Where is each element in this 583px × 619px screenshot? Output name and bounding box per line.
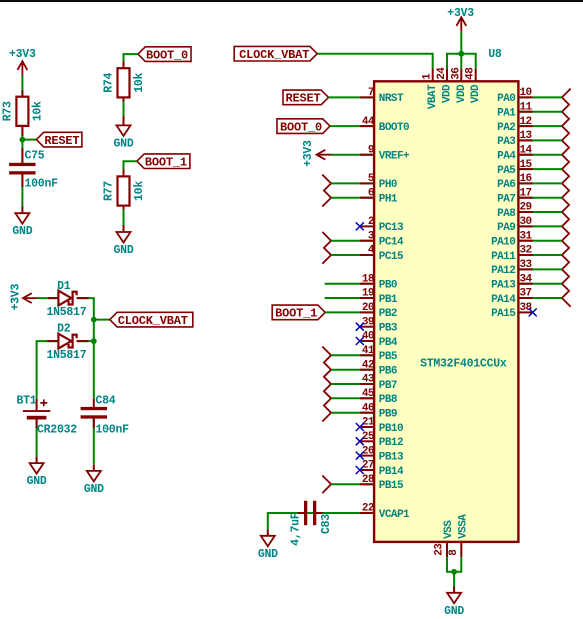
svg-text:PA5: PA5 [497,165,516,177]
svg-text:PB13: PB13 [379,451,404,463]
R74 value 10k [133,72,146,92]
hier tips PA0-PA14 [562,89,571,307]
no-connect X on PA15 [529,308,537,316]
hier tip PB15 [322,476,331,494]
resistor R73 [16,97,28,126]
wire PA0 [518,96,562,98]
wire PA12 [518,268,562,270]
svg-text:CLOCK_VBAT: CLOCK_VBAT [118,314,188,328]
resistor R74 [118,68,130,97]
R73 value 10k [31,101,44,121]
svg-text:VSS: VSS [443,520,455,539]
wire PA4 [518,154,562,156]
R77 value 10k [133,181,146,201]
svg-text:4,7uF: 4,7uF [290,512,303,546]
svg-text:10k: 10k [133,181,146,201]
wire junction to RESET label [22,139,36,141]
svg-text:CR2032: CR2032 [37,423,77,436]
capacitor C83 [304,501,316,525]
wire D2 cathode to node [77,340,94,342]
no-connect X on PB4 [356,337,364,345]
svg-text:NRST: NRST [379,93,404,105]
wire BOOT_1 to PB2 [325,311,374,313]
U8 bottom pin 8 VSSA [448,514,470,557]
U8 right pin 15 PA5 [497,159,532,177]
junction node CLOCK_VBAT [91,317,97,323]
svg-text:PA11: PA11 [491,251,516,263]
svg-text:PC13: PC13 [379,222,404,234]
svg-text:PA12: PA12 [491,265,515,277]
svg-text:PH1: PH1 [379,194,398,206]
junction node VDD [458,51,464,57]
D2 value 1N5817 [46,349,86,362]
R77 reference [103,181,116,201]
U8 left pin 25 PB12 [360,431,403,449]
svg-text:RESET: RESET [44,134,79,148]
svg-text:VCAP1: VCAP1 [379,509,410,521]
U8 left pin 26 PB13 [360,445,404,463]
svg-text:PB0: PB0 [379,280,397,292]
svg-text:D2: D2 [57,323,71,336]
U8 right pin 33 PA12 [491,259,532,277]
wire BOOT_1 to R77 [124,161,137,176]
svg-text:48: 48 [465,67,477,80]
wire PA1 [518,111,562,113]
svg-text:BOOT_1: BOOT_1 [145,155,187,169]
svg-text:VSSA: VSSA [457,514,469,539]
svg-text:GND: GND [27,475,47,488]
wire PC14 [331,240,374,242]
power +3V3 (VDD rail) [447,7,474,32]
U8 left pin 27 PB14 [360,460,404,478]
svg-text:36: 36 [450,68,462,80]
wire BOOT_0 to BOOT0 [330,125,374,127]
global label RESET (at U8) [283,90,329,106]
U8 right pin 34 PA13 [491,273,532,291]
svg-text:PA9: PA9 [497,222,515,234]
junction node D2 cathode [91,338,97,344]
svg-text:10k: 10k [31,101,44,121]
svg-text:PA0: PA0 [497,93,515,105]
wire PB5 [331,354,374,356]
U8 left pin 21 PB10 [360,417,403,435]
svg-text:PB4: PB4 [379,337,398,349]
svg-text:STM32F401CCUx: STM32F401CCUx [420,357,507,370]
svg-text:PB7: PB7 [379,380,397,392]
U8 right pin 38 PA15 [491,302,533,320]
no-connect X on PB3 [356,323,364,331]
resistor R77 [118,176,130,205]
U8 top pin 48 VDD [465,67,483,103]
svg-text:PA3: PA3 [497,136,516,148]
wire R77 to GND [123,206,125,232]
wire PA5 [518,168,562,170]
svg-text:U8: U8 [488,48,502,61]
C84 value 100nF [96,423,130,436]
wire BT1 to GND [36,420,38,464]
svg-text:PB5: PB5 [379,351,398,363]
R73 reference [2,101,15,121]
U8 right pin 31 PA10 [491,230,532,248]
svg-text:+3V3: +3V3 [9,48,36,61]
wire PH1 [331,197,374,199]
U8 right pin 12 PA2 [497,116,531,134]
U8 right pin 13 PA3 [497,130,532,148]
svg-text:GND: GND [444,605,464,618]
U8 left pin 7 NRST [368,87,404,105]
D1 value 1N5817 [46,306,86,319]
svg-text:1N5817: 1N5817 [46,306,86,319]
svg-text:BOOT_0: BOOT_0 [146,48,188,62]
global label BOOT_0 (at U8) [277,119,330,135]
svg-text:PA1: PA1 [497,108,516,120]
U8 right pin 16 PA6 [497,173,531,191]
wire PB7 [331,383,374,385]
power +3V3 (VREF+) [302,140,331,167]
svg-text:PB9: PB9 [379,409,397,421]
svg-text:VDD: VDD [470,84,482,103]
svg-text:+3V3: +3V3 [302,140,315,167]
wire PB0 stub [325,283,374,285]
svg-text:D1: D1 [57,280,71,293]
junction node RESET [20,137,26,143]
global label RESET (left) [36,132,82,148]
svg-text:1N5817: 1N5817 [46,349,86,362]
svg-text:PB6: PB6 [379,366,397,378]
no-connect X on PB10 [356,423,364,431]
BT1 reference [17,394,37,407]
ground GND (C84) [84,471,104,496]
wire PA14 [518,297,562,299]
global label BOOT_1 (at U8) [272,305,325,321]
svg-text:100nF: 100nF [25,177,59,190]
svg-text:GND: GND [12,225,32,238]
wire +3V3 to VREF+ [331,154,374,156]
capacitor C75 [9,163,35,175]
U8 reference [488,48,502,61]
wire R74 to GND [123,97,125,125]
U8 left pin 4 PC15 [368,245,404,263]
no-connect X on PB13 [356,452,364,460]
ground GND (R74) [114,125,134,150]
diode D2 1N5817 [58,334,76,349]
hier tips PB5-PB9 [322,347,331,422]
U8 left pin 46 PB9 [362,402,397,420]
global label CLOCK_VBAT (left area) [110,312,193,328]
U8 right pin 17 PA7 [497,187,531,205]
wire PB8 [331,397,374,399]
global label BOOT_0 (left area) [138,47,191,63]
diode D1 1N5817 [58,291,76,306]
svg-text:VBAT: VBAT [427,84,439,109]
wire C84 to GND [93,419,95,471]
svg-text:BOOT0: BOOT0 [379,122,409,134]
wire PB9 [331,412,374,414]
U8 left pin 44 BOOT0 [362,116,409,134]
no-connect X on PB12 [356,437,364,445]
C83 value 4,7uF [290,512,303,546]
svg-text:1: 1 [422,73,434,80]
svg-text:VDD: VDD [456,84,468,103]
wire PB15 [331,483,374,485]
U8 left pin 22 VCAP1 [362,503,410,521]
svg-text:GND: GND [258,548,278,561]
global label BOOT_1 (left area) [137,154,190,170]
wire VCAP1 to C83 and GND [268,513,374,536]
U8 value STM32F401CCUx [420,357,507,370]
wire VSS VSSA to GND [447,557,461,593]
wire R73 to C75 [21,126,23,163]
wire PA2 [518,125,562,127]
wire BOOT_0 to R74 [124,54,139,68]
wire D2 anode to BT1 [37,341,59,410]
svg-text:PA13: PA13 [491,280,516,292]
global label CLOCK_VBAT (at U8) [234,46,317,62]
wire PA13 [518,283,562,285]
svg-text:+3V3: +3V3 [9,284,22,311]
svg-text:CLOCK_VBAT: CLOCK_VBAT [239,48,309,62]
U8 left pin 45 PB8 [362,388,398,406]
sheet border top edge [0,0,583,2]
svg-text:24: 24 [436,67,448,80]
U8 left pin 2 PC13 [360,216,404,234]
svg-text:PB14: PB14 [379,466,404,478]
svg-text:C83: C83 [320,514,333,534]
svg-text:GND: GND [114,244,134,257]
wire PB1 stub [325,297,374,299]
svg-text:R74: R74 [103,72,116,92]
C83 reference [320,514,333,534]
svg-text:23: 23 [434,543,446,556]
junction node VSS [451,569,457,575]
no-connect X on PB14 [356,466,364,474]
U8 right pin 29 PA8 [497,202,531,220]
U8 right pin 14 PA4 [497,144,532,162]
svg-text:PB10: PB10 [379,423,403,435]
wire C75 to GND [21,175,23,214]
wire PB6 [331,369,374,371]
U8 top pin 24 VDD [436,67,454,103]
svg-text:C84: C84 [96,394,116,407]
U8 left pin 20 PB2 [362,302,397,320]
svg-text:PB15: PB15 [379,480,404,492]
wire RESET to NRST [329,96,375,98]
svg-text:PA6: PA6 [497,179,515,191]
wire PA8 [518,211,562,213]
svg-text:PB8: PB8 [379,394,398,406]
hier tips PC14 PC15 [322,232,331,264]
wire PA3 [518,139,562,141]
U8 left pin 43 PB7 [362,374,397,392]
U8 left pin 40 PB4 [360,331,398,349]
svg-text:PA8: PA8 [497,208,516,220]
BT1 value CR2032 [37,423,77,436]
U8 left pin 19 PB1 [362,288,398,306]
battery BT1 CR2032 [23,399,50,419]
wire PA9 [518,225,562,227]
wire +3V3 to R73 [21,76,23,97]
U8 right pin 37 PA14 [491,288,531,306]
wire PA10 [518,240,562,242]
capacitor C84 [81,407,107,419]
ground GND (C75) [12,213,32,238]
U8 right pin 32 PA11 [491,245,531,263]
R74 reference [103,72,116,92]
svg-text:GND: GND [84,483,104,496]
wire D1 cathode down to C84 [77,298,94,407]
U8 left pin 5 PH0 [368,173,397,191]
svg-text:PA7: PA7 [497,194,515,206]
svg-text:VREF+: VREF+ [379,151,410,163]
wire PH0 [331,182,374,184]
U8 left pin 41 PB5 [362,345,398,363]
svg-text:R73: R73 [2,101,15,121]
svg-text:PC14: PC14 [379,237,404,249]
svg-text:PA2: PA2 [497,122,515,134]
C84 reference [96,394,116,407]
svg-text:+3V3: +3V3 [447,7,474,20]
svg-text:PA14: PA14 [491,294,516,306]
svg-text:R77: R77 [103,181,116,201]
U8 left pin 9 VREF+ [368,144,410,162]
ground GND (R77) [114,232,134,257]
D2 reference [57,323,71,336]
D1 reference [57,280,71,293]
wire CLOCK_VBAT to VBAT pin [317,54,433,69]
svg-text:BT1: BT1 [17,394,37,407]
svg-text:BOOT_1: BOOT_1 [275,307,317,321]
hier tips PH0 PH1 [322,175,331,207]
ground GND (BT1) [27,463,47,488]
C75 value 100nF [25,177,59,190]
svg-text:PH0: PH0 [379,179,397,191]
wire PA11 [518,254,562,256]
ground GND (U8) [444,593,464,618]
U8 top pin 1 VBAT [422,69,440,109]
wire PC15 [331,254,374,256]
svg-text:PB1: PB1 [379,294,398,306]
wire PA6 [518,182,562,184]
wire +3V3 to D1 [37,297,58,299]
svg-text:C75: C75 [25,150,45,163]
svg-text:8: 8 [448,549,460,556]
wire +3V3 to VDD pins [460,32,462,54]
svg-text:RESET: RESET [285,92,320,106]
power +3V3 (R73 pull-up) [9,48,36,75]
U8 right pin 11 PA1 [497,101,532,119]
svg-text:PB3: PB3 [379,323,398,335]
wire PA7 [518,197,562,199]
svg-text:PA15: PA15 [491,308,516,320]
power +3V3 (D1 anode) [9,284,37,311]
svg-text:10k: 10k [133,72,146,92]
svg-text:VDD: VDD [442,84,454,103]
svg-text:PA4: PA4 [497,151,516,163]
svg-text:BOOT_0: BOOT_0 [280,120,322,134]
U8 right pin 10 PA0 [497,87,531,105]
IC U8 STM32F401CCUx body [374,81,518,542]
svg-text:PB12: PB12 [379,437,403,449]
U8 left pin 28 PB15 [362,474,404,492]
C75 reference [25,150,45,163]
svg-text:100nF: 100nF [96,423,130,436]
U8 left pin 39 PB3 [360,316,398,334]
wire VDD bus [447,54,476,69]
U8 left pin 3 PC14 [368,230,404,248]
no-connect X on PC13 [356,222,364,230]
U8 left pin 6 PH1 [368,187,398,205]
svg-text:PA10: PA10 [491,237,515,249]
U8 right pin 30 PA9 [497,216,531,234]
U8 bottom pin 23 VSS [434,520,456,557]
U8 left pin 18 PB0 [362,273,397,291]
ground GND (C83) [258,536,278,561]
U8 top pin 36 VDD [450,68,468,103]
svg-text:GND: GND [114,137,134,150]
svg-text:PC15: PC15 [379,251,404,263]
U8 left pin 42 PB6 [362,359,397,377]
wire junction to CLOCK_VBAT label [94,319,110,321]
svg-text:PB2: PB2 [379,308,397,320]
